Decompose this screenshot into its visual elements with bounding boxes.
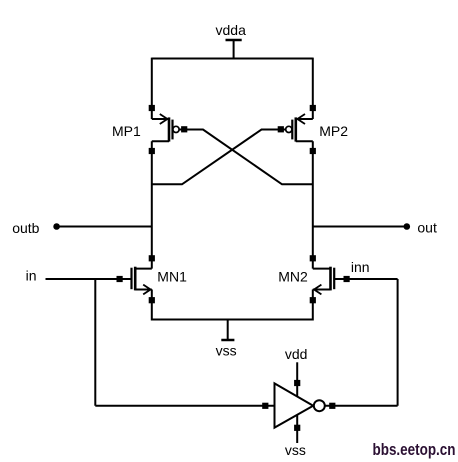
- wire cross-couple MP1 gate to right drain node: [179, 130, 313, 185]
- inverter U1: [275, 383, 325, 427]
- svg-text:outb: outb: [12, 220, 39, 236]
- svg-text:MP1: MP1: [112, 123, 141, 139]
- wire in feedback down: [94, 279, 96, 406]
- wire inverter output: [325, 405, 398, 407]
- svg-text:vdda: vdda: [216, 22, 247, 38]
- nmos MN1: [132, 267, 152, 295]
- wire cross-couple MP2 gate to left drain node: [152, 130, 286, 185]
- wire left vdda to MP1 source: [151, 58, 153, 119]
- wire MN2 gate to inn: [335, 278, 398, 280]
- wire inverter input: [95, 405, 274, 407]
- pmos MP2: [286, 114, 313, 142]
- power symbol vdd (inverter): [285, 346, 308, 397]
- svg-text:bbs.eetop.cn: bbs.eetop.cn: [373, 440, 456, 459]
- ground symbol vss (inverter): [285, 415, 306, 458]
- wire out: [313, 226, 407, 228]
- svg-text:MN1: MN1: [157, 269, 187, 285]
- svg-text:inn: inn: [351, 259, 370, 275]
- junction dot MN1 drain pin: [149, 255, 155, 261]
- svg-text:out: out: [417, 220, 437, 236]
- svg-text:MP2: MP2: [319, 123, 348, 139]
- junction dot MN1 source pin: [149, 297, 155, 303]
- wire inn feedback up: [397, 279, 399, 406]
- junction dot MP2 source pin: [310, 105, 316, 111]
- junction dot inverter vdd pin: [294, 380, 300, 386]
- junction dot MP1 source pin: [149, 105, 155, 111]
- junction dot inverter output pin: [329, 403, 335, 409]
- svg-text:MN2: MN2: [278, 269, 308, 285]
- wire MN2 source to vss rail: [312, 290, 314, 321]
- junction dot MP1 drain pin: [149, 148, 155, 154]
- svg-text:vdd: vdd: [285, 346, 308, 362]
- svg-text:in: in: [26, 268, 37, 284]
- nmos MN2: [313, 267, 334, 295]
- wire left drain column: [151, 141, 153, 268]
- junction dot MP2 gate pin: [278, 126, 284, 132]
- node out: [404, 220, 437, 236]
- svg-text:vss: vss: [285, 442, 306, 458]
- wire right vdda to MP2 source: [312, 58, 314, 119]
- node outb: [12, 220, 60, 236]
- wire top rail vdda: [152, 58, 313, 60]
- power symbol vdda: [216, 22, 247, 59]
- wire right drain column: [312, 141, 314, 268]
- junction dot MN1 gate pin: [117, 276, 123, 282]
- wire MN1 source to vss rail: [151, 290, 153, 321]
- wire in to MN1 gate: [46, 278, 131, 280]
- wire outb: [57, 226, 152, 228]
- wire bottom vss rail: [152, 319, 313, 321]
- junction dot inverter input pin: [262, 403, 268, 409]
- junction dot inverter vss pin: [294, 425, 300, 431]
- junction dot MN2 gate pin: [344, 276, 350, 282]
- junction dot MN2 source pin: [310, 297, 316, 303]
- ground symbol vss: [216, 320, 237, 359]
- junction dot MN2 drain pin: [310, 255, 316, 261]
- pmos MP1: [152, 114, 179, 142]
- svg-text:vss: vss: [216, 342, 237, 358]
- junction dot MP1 gate pin: [181, 126, 187, 132]
- junction dot MP2 drain pin: [310, 148, 316, 154]
